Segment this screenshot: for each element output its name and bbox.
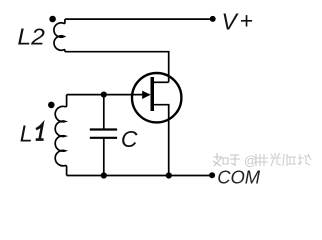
- capacitor C top plate: [90, 128, 117, 130]
- watermark 知乎 @微光倾城: [213, 153, 311, 168]
- char 微: [256, 154, 268, 166]
- node junction dot C bottom: [101, 172, 107, 178]
- L1 phasing dot: [48, 102, 55, 109]
- node COM terminal dot: [209, 172, 215, 178]
- svg-text:@: @: [244, 153, 257, 168]
- char 倾: [283, 154, 296, 166]
- node junction dot tank top / C: [101, 92, 107, 98]
- char 知: [213, 153, 222, 166]
- transistor Q1 channel bar: [151, 77, 155, 111]
- svg-text:C: C: [121, 126, 138, 152]
- char 光: [270, 153, 281, 166]
- wire L2 bottom to drain vertical: [65, 52, 169, 83]
- L2 phasing dot: [49, 16, 56, 23]
- char 城: [298, 154, 311, 165]
- capacitor C bottom plate: [90, 137, 117, 139]
- transistor source lead: [153, 105, 169, 176]
- wire bottom rail: [67, 175, 210, 177]
- gate arrowhead: [142, 91, 150, 99]
- transistor drain lead: [153, 81, 169, 83]
- svg-text:+: +: [240, 7, 253, 33]
- wire C bottom lead: [103, 138, 105, 176]
- inductor L1: [55, 95, 66, 176]
- wire C top lead: [103, 95, 105, 130]
- transistor Q1 circle: [132, 73, 181, 122]
- char 乎: [230, 155, 240, 166]
- svg-text:V: V: [222, 9, 240, 35]
- node V+ terminal dot: [210, 16, 216, 22]
- wire top rail L2 to V+: [65, 18, 210, 20]
- svg-text:L2: L2: [17, 23, 45, 49]
- svg-text:COM: COM: [217, 166, 261, 186]
- inductor L2: [54, 19, 65, 52]
- gate wire from tank to Q1: [67, 94, 150, 96]
- svg-text:L: L: [20, 120, 33, 146]
- node junction dot source bottom: [166, 172, 172, 178]
